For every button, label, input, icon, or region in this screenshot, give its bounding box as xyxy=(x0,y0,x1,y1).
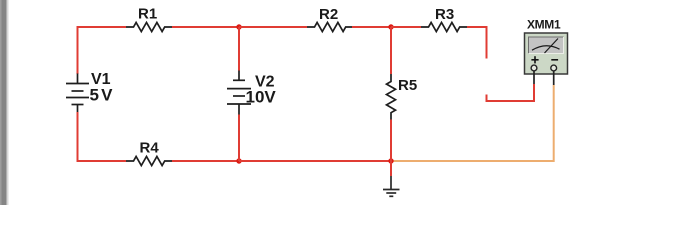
resistor R3 xyxy=(421,23,467,32)
multimeter XMM1 xyxy=(525,33,568,74)
ground xyxy=(383,176,400,196)
svg-text:5V: 5V xyxy=(90,86,114,105)
XMM1 minus pin xyxy=(553,71,555,85)
node D junction xyxy=(236,158,241,163)
wire XMM1 minus probe to node E (orange) xyxy=(391,85,554,161)
XMM1 plus pin xyxy=(533,71,535,84)
battery V1 xyxy=(66,74,89,113)
resistor R4 xyxy=(126,157,172,166)
svg-text:R4: R4 xyxy=(140,140,160,157)
svg-text:R1: R1 xyxy=(138,6,157,23)
wire V2 bottom to node D xyxy=(238,115,240,162)
resistor R5 xyxy=(387,74,396,120)
resistor R1 xyxy=(126,23,172,32)
svg-text:XMM1: XMM1 xyxy=(527,18,561,32)
wire R1 to node A xyxy=(172,26,239,28)
wire node A to R2 xyxy=(239,26,307,28)
wire top-left: V1 top to R1 xyxy=(78,27,127,74)
wire node E to ground lead xyxy=(390,161,392,176)
wire R5 bottom to node E xyxy=(390,120,392,162)
wire R2 to node B xyxy=(352,26,391,28)
wire XMM1 plus probe (open end) xyxy=(487,84,535,101)
node E junction xyxy=(388,158,393,163)
node B junction xyxy=(388,24,393,29)
node A junction xyxy=(236,24,241,29)
resistor R2 xyxy=(307,23,353,32)
wire V1 bottom to R4 xyxy=(78,112,127,161)
svg-text:R3: R3 xyxy=(435,6,454,23)
wire R4 to node D xyxy=(172,160,239,162)
wire R3 stub to open end xyxy=(467,27,487,59)
wire node B down to R5 xyxy=(390,27,392,74)
wire node A down to V2 xyxy=(238,27,240,71)
svg-text:10V: 10V xyxy=(246,88,277,107)
svg-text:R5: R5 xyxy=(398,77,417,94)
wire node B to R3 xyxy=(391,26,421,28)
svg-text:R2: R2 xyxy=(319,6,338,23)
battery V2 xyxy=(227,71,251,115)
wire node D to node E xyxy=(239,160,391,162)
